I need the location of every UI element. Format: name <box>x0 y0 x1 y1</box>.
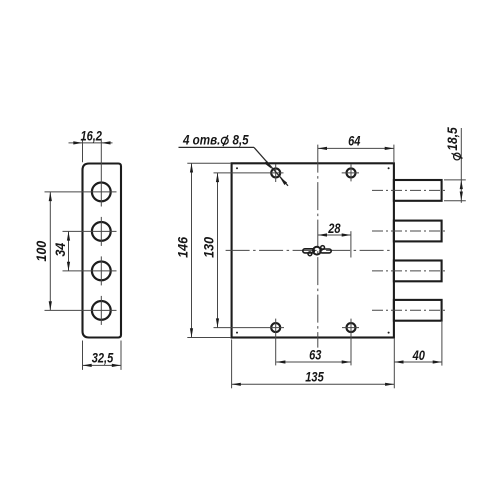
bolt 2 <box>394 221 442 242</box>
bolt 1 centreline <box>372 189 448 191</box>
body hole top-left <box>271 168 280 177</box>
body hole bottom-left <box>271 323 280 332</box>
dimension 16,2 <box>69 128 113 162</box>
dimension 28 <box>318 221 351 258</box>
svg-text:63: 63 <box>309 348 321 363</box>
horizontal centreline <box>226 249 392 251</box>
svg-text:100: 100 <box>34 240 50 262</box>
centreline hole 2 horizontal <box>63 230 117 232</box>
centreline hole 4 horizontal <box>45 309 117 311</box>
body hole top-right <box>347 168 356 177</box>
svg-text:18,5: 18,5 <box>444 126 460 150</box>
centreline hole 3 horizontal <box>63 270 117 272</box>
faceplate hole 2 <box>92 222 111 241</box>
label 4 holes dia 8,5 <box>179 133 255 148</box>
centreline hole 1 horizontal <box>45 191 117 193</box>
crosshair top-right hole <box>342 164 359 181</box>
dimension 64 <box>318 133 394 162</box>
dimension 135 <box>232 340 395 389</box>
dimension 130 <box>201 173 219 328</box>
faceplate hole 3 <box>92 262 111 281</box>
centreline hole 1 vertical <box>100 139 102 207</box>
svg-text:135: 135 <box>305 369 324 384</box>
centreline hole 3 vertical <box>100 256 102 285</box>
svg-text:4 отв.: 4 отв. <box>182 133 220 148</box>
key spindle <box>303 246 331 256</box>
lock body outline <box>232 163 394 337</box>
svg-text:130: 130 <box>201 236 217 258</box>
crosshair bottom-right hole <box>342 319 359 366</box>
dimension 146 <box>175 163 230 337</box>
crosshair bottom-left hole <box>214 319 285 366</box>
centreline hole 2 vertical <box>100 217 102 246</box>
corner screw dot 1 <box>236 167 238 169</box>
faceplate hole 4 <box>92 301 111 320</box>
faceplate outline <box>83 164 122 338</box>
vertical centreline <box>317 145 319 348</box>
centreline hole 4 vertical <box>100 296 102 325</box>
crosshair top-left hole <box>214 164 284 182</box>
svg-text:28: 28 <box>327 221 340 236</box>
corner screw dot 2 <box>388 167 390 169</box>
svg-text:64: 64 <box>348 133 360 148</box>
bolt 1 <box>394 180 442 201</box>
corner screw dot 4 <box>388 332 390 334</box>
dimension 32,5 <box>83 341 122 370</box>
bolt 4 centreline <box>372 309 448 311</box>
dimension dia 18,5 <box>444 126 466 202</box>
bolt 2 centreline <box>372 230 448 232</box>
leader line to hole <box>254 147 288 185</box>
dimension 100 <box>34 192 52 311</box>
svg-text:40: 40 <box>412 348 425 363</box>
dimension 34 <box>52 231 70 271</box>
svg-text:146: 146 <box>175 236 191 258</box>
corner screw dot 3 <box>236 332 238 334</box>
svg-text:32,5: 32,5 <box>92 351 114 366</box>
svg-text:16,2: 16,2 <box>80 128 102 143</box>
dimension 40 <box>394 322 442 388</box>
svg-text:34: 34 <box>52 242 68 257</box>
faceplate hole 1 <box>92 183 111 202</box>
svg-text:8,5: 8,5 <box>233 133 250 148</box>
bolt 3 centreline <box>372 270 448 272</box>
body hole bottom-right <box>347 323 356 332</box>
dimension 63 <box>276 348 351 364</box>
bolt 4 <box>394 300 442 321</box>
bolt 3 <box>394 261 442 282</box>
